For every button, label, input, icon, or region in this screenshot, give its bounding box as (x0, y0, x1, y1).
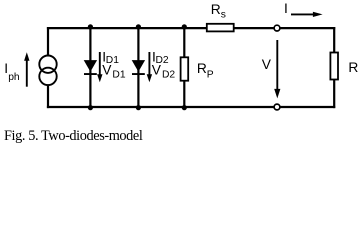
svg-text:ph: ph (8, 72, 20, 83)
current source Iph circle lower (39, 68, 56, 85)
svg-text:V: V (102, 63, 112, 78)
wire diode D1 branch (89, 28, 91, 107)
terminal node bottom (274, 104, 280, 110)
node junction bottom D1 (88, 105, 93, 110)
svg-text:D2: D2 (162, 70, 175, 81)
resistor Rp (181, 57, 189, 80)
svg-text:V: V (262, 57, 272, 72)
diode D2 (132, 60, 145, 72)
svg-text:P: P (207, 69, 214, 80)
svg-text:R: R (348, 60, 358, 75)
resistor Rs (207, 24, 234, 32)
node junction top Rp (182, 24, 187, 29)
wire top rail (47, 27, 335, 29)
svg-text:Fig. 5. Two-diodes-model: Fig. 5. Two-diodes-model (4, 128, 143, 144)
wire right vertical (333, 27, 335, 108)
diode D1 (84, 60, 97, 72)
node junction bottom D2 (136, 105, 141, 110)
node junction bottom Rp (182, 105, 187, 110)
svg-text:D1: D1 (112, 70, 125, 81)
arrow ID1 (99, 52, 101, 75)
wire diode D2 branch (137, 28, 139, 107)
svg-text:R: R (211, 2, 221, 17)
wire left vertical lower (47, 86, 49, 108)
wire Rp branch (183, 28, 185, 107)
resistor R (330, 53, 338, 80)
svg-text:V: V (152, 63, 162, 78)
arrow V (276, 40, 278, 90)
node junction top D1 (88, 24, 93, 29)
wire bottom rail (47, 106, 335, 108)
svg-text:R: R (197, 61, 207, 76)
svg-text:s: s (221, 9, 226, 20)
arrow Iph (26, 60, 28, 87)
arrow I (291, 13, 314, 15)
wire left vertical upper (47, 27, 49, 55)
current source Iph circle upper (39, 55, 56, 72)
node junction top D2 (136, 24, 141, 29)
svg-text:I: I (284, 1, 288, 16)
arrow ID2 (148, 52, 150, 75)
terminal node top (274, 25, 280, 31)
